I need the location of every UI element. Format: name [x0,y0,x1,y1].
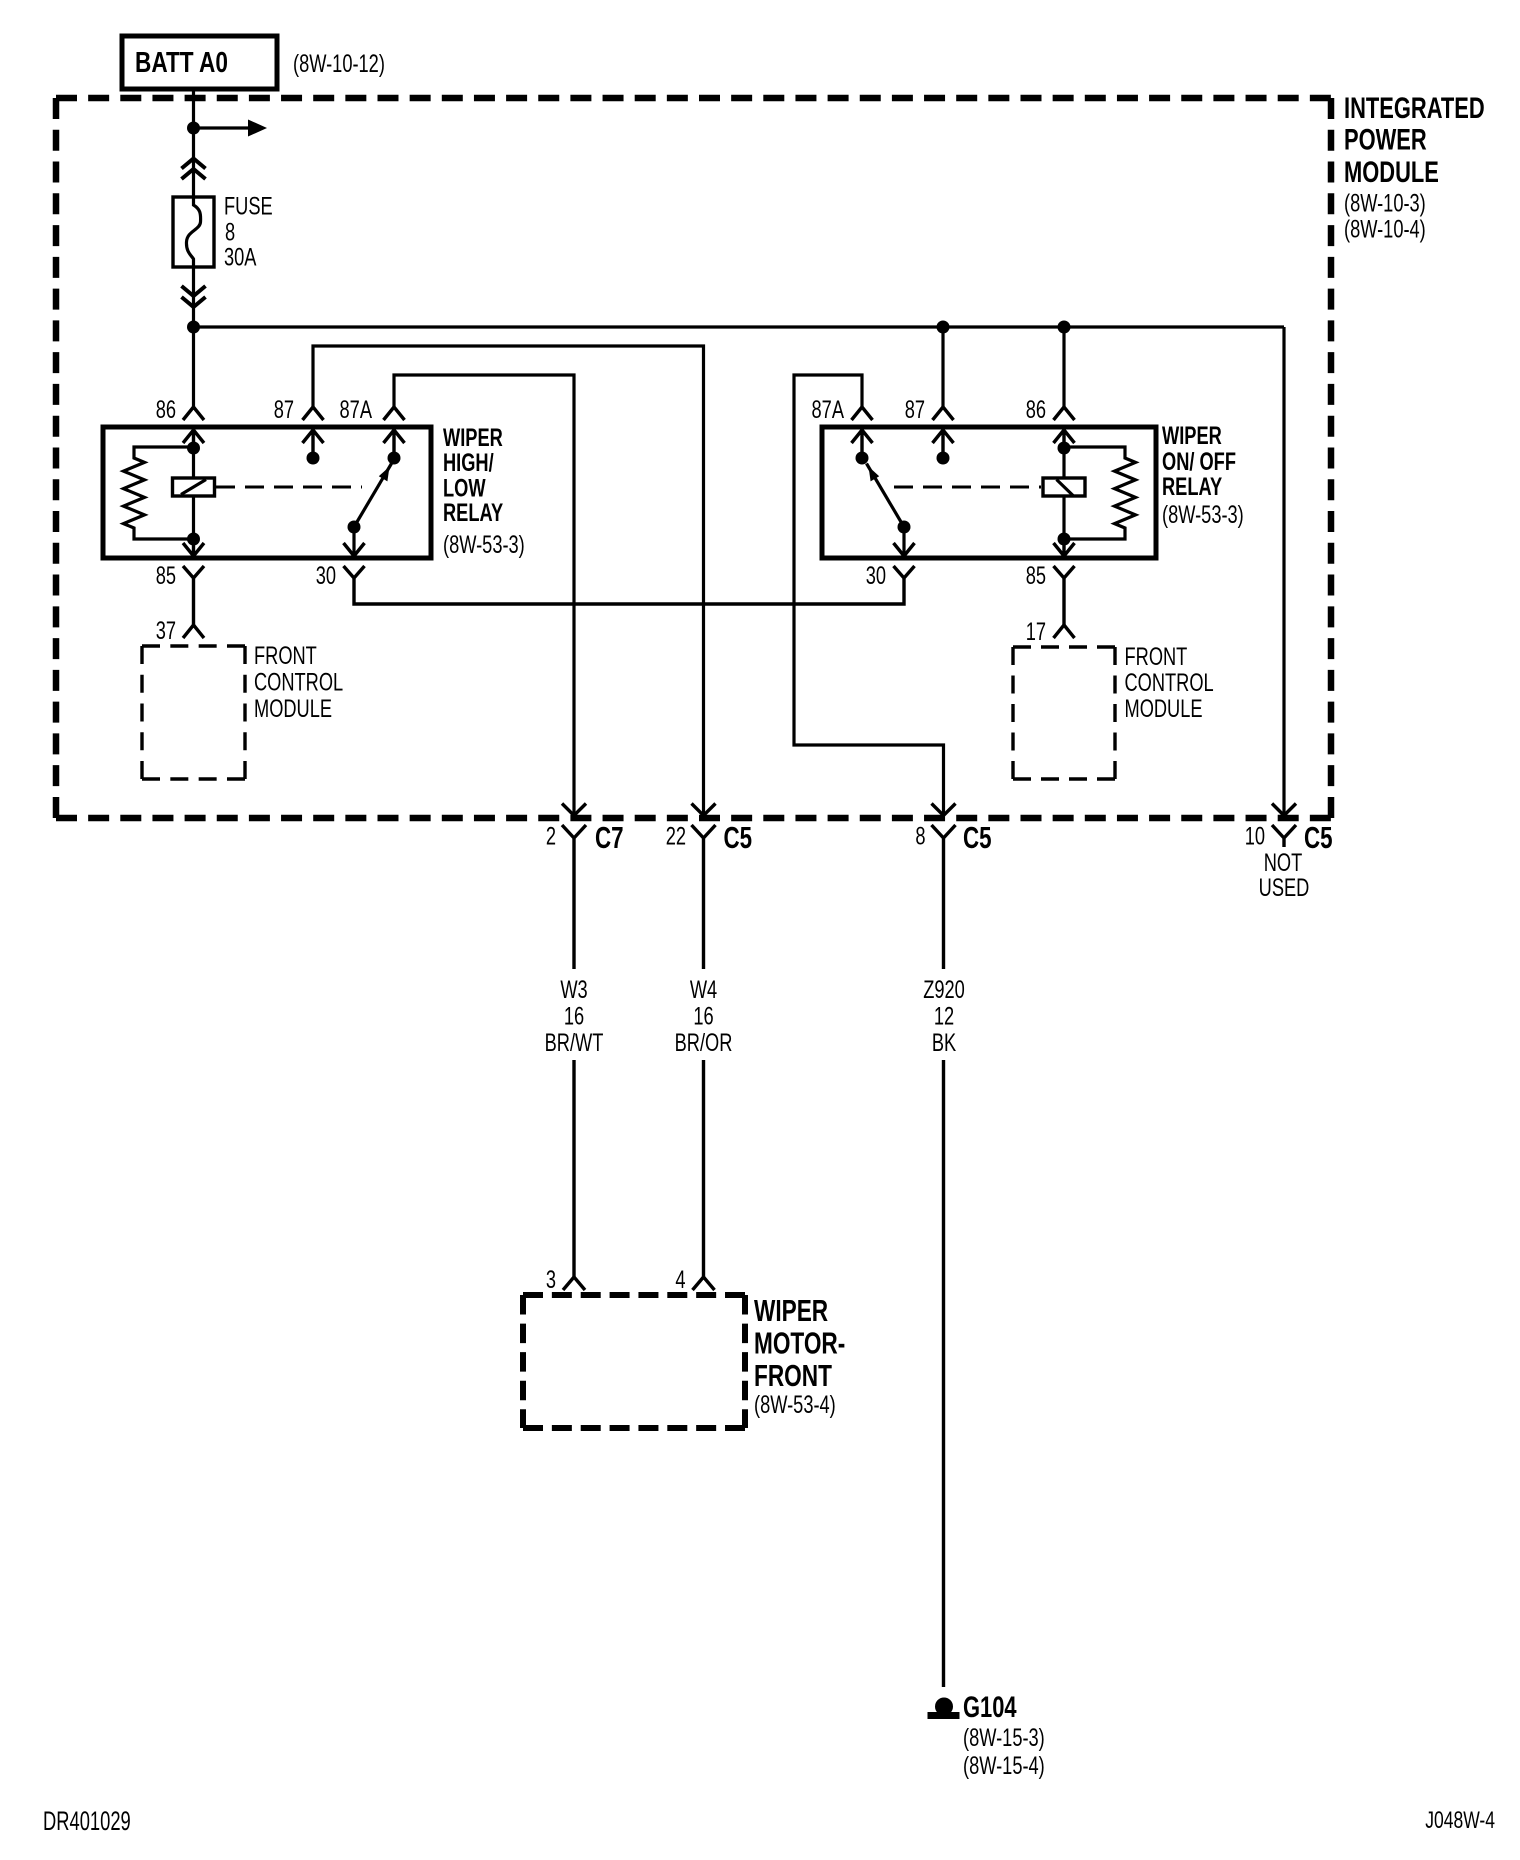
svg-text:85: 85 [1026,561,1046,590]
wiper motor front (dashed) [523,1295,745,1428]
svg-text:(8W-53-3): (8W-53-3) [443,530,525,559]
svg-text:CONTROL: CONTROL [254,668,343,697]
svg-text:87: 87 [274,395,294,424]
fuse 8 30A [173,197,214,267]
wire relay2 pin 87A riser to ground drop [794,375,944,814]
relay2 suppression resistor [1064,447,1136,539]
connector 10 C5 entry arrow [1272,804,1296,816]
wire bus down to relay2 pin 86 [1062,327,1065,407]
svg-text:CONTROL: CONTROL [1125,668,1214,697]
relay1 pin 87 inner chevron and stub [303,430,324,452]
relay2 coil-contact dashed link [894,486,1041,489]
relay1 pin 86 inner chevron and stub [183,430,204,448]
svg-text:87: 87 [905,395,925,424]
svg-text:INTEGRATED: INTEGRATED [1344,91,1485,125]
svg-text:J048W-4: J048W-4 [1425,1807,1495,1833]
svg-text:(8W-15-4): (8W-15-4) [963,1751,1045,1780]
svg-text:FRONT: FRONT [254,641,317,670]
connector 2 C7 Y and wire W3 [562,825,586,1277]
relay1 coil-contact dashed link [216,486,362,489]
front control module 2 (dashed) [1013,647,1115,779]
relay2 pin 85 outer Y [1054,566,1075,625]
wire bus down to relay1 pin 86 [192,327,195,407]
wire relay1 pin 87 riser [313,346,704,814]
front control module 1 (dashed) [142,646,245,779]
inline connector chevrons (down) below fuse [182,286,206,296]
svg-text:G104: G104 [963,1690,1017,1724]
svg-text:RELAY: RELAY [443,498,503,527]
inline connector chevrons (up) above fuse [182,159,206,169]
svg-text:C7: C7 [595,820,624,854]
pin 86 relay2 feather [1054,407,1075,420]
connector 22 C5 Y and wire W4 [692,825,716,1277]
relay1 junction dot coil bottom [187,533,200,546]
pin 4 feather [693,1277,715,1290]
svg-text:12: 12 [934,1002,954,1031]
svg-text:MODULE: MODULE [1125,694,1203,723]
svg-text:C5: C5 [1304,820,1333,854]
relay2 wire switch to pin 30 [902,527,905,556]
pin 86 relay1 feather [183,407,204,420]
pin 3 feather [563,1277,585,1290]
relay1 switch arm with arrow [348,521,361,534]
svg-text:16: 16 [564,1002,584,1031]
svg-text:8: 8 [915,822,925,851]
junction dot at A0 branch [187,122,200,135]
svg-text:4: 4 [675,1265,685,1294]
integrated power module boundary (dashed) [56,98,1331,818]
arrowhead A0 branch [248,120,267,137]
relay1 pin 30 inner chevron [344,543,365,556]
junction dot bus to relay2 86 [1058,321,1071,334]
svg-text:MODULE: MODULE [1344,155,1439,189]
relay1 coil [192,448,195,539]
connector 22 C5 entry arrow [692,804,716,816]
pin 87A relay2 feather [852,407,873,420]
pin 87 relay1 feather [303,407,324,420]
pin 17 feather [1054,625,1075,638]
connector 8 C5 entry arrow [932,804,956,816]
connector 8 C5 Y and wire Z920 [932,825,956,1687]
relay2 dot pin 87A contact [856,452,869,465]
svg-text:30A: 30A [224,243,257,272]
relay1 wire switch to pin 30 [352,527,355,556]
svg-text:USED: USED [1259,873,1310,902]
relay K1 wiper high/low box [103,427,431,558]
svg-text:30: 30 [866,561,886,590]
svg-text:W3: W3 [560,975,587,1004]
svg-text:(8W-15-3): (8W-15-3) [963,1723,1045,1752]
node BATT A0 feed box [122,36,277,89]
relay1 pin 87A inner chevron and stub [384,430,405,452]
junction dot bus to relay2 87 [937,321,950,334]
svg-text:87A: 87A [812,395,845,424]
svg-text:Z920: Z920 [923,975,965,1004]
relay1 pin 85 outer Y [183,566,204,625]
svg-text:MOTOR-: MOTOR- [754,1325,845,1360]
wire A0 from BATT A0 down to fuse [192,89,195,197]
svg-text:DR401029: DR401029 [43,1805,131,1835]
wire bus end down to connector 10 C5 [1282,327,1285,814]
wire from fuse down to bus [192,267,195,327]
relay1 pin 30 outer Y and wire to relay2 pin 30 [344,566,915,604]
svg-text:(8W-53-3): (8W-53-3) [1162,500,1244,529]
svg-text:(8W-10-3): (8W-10-3) [1344,189,1426,218]
relay2 pin 87A inner chevron and stub [852,430,873,452]
relay2 pin 86 inner chevron and stub [1054,430,1075,448]
relay1 junction dot coil top [187,442,200,455]
relay K2 wiper on/off box [822,427,1156,558]
connector 2 C7 entry arrow [562,804,586,816]
ground G104 symbol [935,1698,953,1716]
relay2 junction dot coil bottom [1058,533,1071,546]
svg-text:BATT A0: BATT A0 [135,45,228,78]
svg-text:FRONT: FRONT [754,1357,832,1392]
relay2 switch arm with arrow [898,521,911,534]
svg-text:POWER: POWER [1344,122,1427,156]
svg-text:HIGH/: HIGH/ [443,448,494,477]
relay1 pin 85 inner chevron [183,539,204,556]
svg-text:BR/WT: BR/WT [545,1028,604,1057]
svg-text:C5: C5 [963,820,992,854]
relay2 junction dot coil top [1058,442,1071,455]
svg-text:RELAY: RELAY [1162,472,1222,501]
svg-text:WIPER: WIPER [1162,421,1222,450]
pin 37 feather [183,625,204,638]
relay2 coil [1062,448,1065,539]
svg-text:86: 86 [1026,395,1046,424]
wire A0 branch arrow to right [194,126,249,129]
svg-text:WIPER: WIPER [754,1292,828,1327]
relay1 dot pin 87A contact [388,452,401,465]
svg-text:(8W-10-12): (8W-10-12) [293,49,385,78]
wire relay1 pin 87A riser [394,375,574,814]
bus wire from fuse output to right [194,325,1285,328]
svg-text:C5: C5 [724,820,753,854]
svg-text:10: 10 [1245,822,1265,851]
svg-text:(8W-53-4): (8W-53-4) [754,1390,836,1419]
relay1 dot pin 87 contact [307,452,320,465]
svg-text:16: 16 [693,1002,713,1031]
svg-text:87A: 87A [340,395,373,424]
svg-text:86: 86 [156,395,176,424]
svg-text:BR/OR: BR/OR [675,1028,733,1057]
svg-text:85: 85 [156,561,176,590]
connector 10 C5 Y (not used) [1272,825,1296,847]
svg-text:37: 37 [156,616,176,645]
svg-text:3: 3 [546,1265,556,1294]
junction dot fuse output [187,321,200,334]
relay2 pin 30 inner chevron [894,543,915,556]
relay2 dot pin 87 contact [937,452,950,465]
relay2 pin 85 inner chevron [1054,539,1075,556]
relay1 suppression resistor [124,447,194,539]
svg-text:MODULE: MODULE [254,694,332,723]
svg-text:22: 22 [666,822,686,851]
pin 87A relay1 feather [384,407,405,420]
svg-text:W4: W4 [690,975,717,1004]
svg-text:FRONT: FRONT [1125,642,1188,671]
wire bus down to relay2 pin 87 [941,327,944,407]
svg-text:(8W-10-4): (8W-10-4) [1344,215,1426,244]
svg-text:2: 2 [546,822,556,851]
relay2 pin 87 inner chevron and stub [933,430,954,452]
svg-text:FUSE: FUSE [224,192,273,221]
svg-text:17: 17 [1026,617,1046,646]
svg-text:BK: BK [932,1028,957,1057]
pin 87 relay2 feather [933,407,954,420]
svg-text:30: 30 [316,561,336,590]
